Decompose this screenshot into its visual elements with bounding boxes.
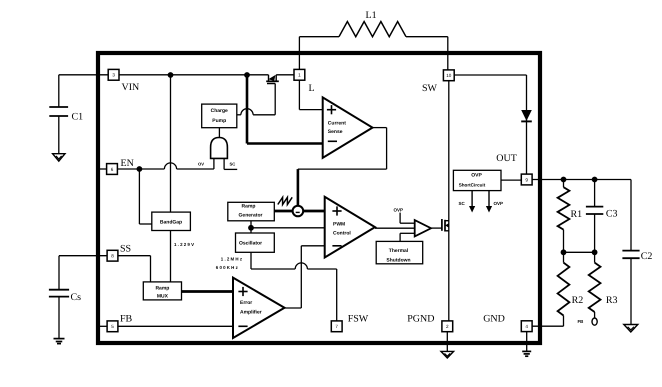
svg-text:Thermal: Thermal	[389, 248, 409, 254]
svg-text:OVP: OVP	[394, 208, 404, 213]
svg-text:10: 10	[446, 73, 452, 78]
svg-text:1 . 2 M H z: 1 . 2 M H z	[221, 256, 243, 261]
svg-text:FB: FB	[578, 319, 584, 324]
svg-text:Current: Current	[328, 120, 346, 126]
svg-text:Error: Error	[240, 300, 252, 306]
svg-text:C2: C2	[641, 251, 653, 262]
svg-text:SC: SC	[459, 201, 466, 206]
svg-text:1 . 2 2 9 V: 1 . 2 2 9 V	[174, 242, 194, 247]
svg-text:R2: R2	[572, 295, 584, 306]
svg-text:GND: GND	[483, 314, 505, 325]
svg-text:Cs: Cs	[71, 292, 82, 303]
svg-text:MUX: MUX	[157, 294, 169, 300]
svg-text:R3: R3	[606, 295, 618, 306]
svg-text:SC: SC	[230, 162, 236, 167]
svg-text:VIN: VIN	[122, 82, 140, 93]
svg-text:FSW: FSW	[348, 314, 369, 325]
svg-text:BandGap: BandGap	[160, 220, 182, 226]
svg-text:Amplifier: Amplifier	[240, 310, 262, 316]
svg-text:Ramp: Ramp	[155, 285, 169, 291]
svg-text:C1: C1	[72, 112, 84, 123]
svg-text:PWM: PWM	[333, 222, 345, 228]
svg-text:4: 4	[525, 324, 528, 329]
svg-text:OVP: OVP	[471, 172, 482, 178]
svg-text:Ramp: Ramp	[242, 204, 256, 210]
svg-text:8: 8	[111, 254, 114, 259]
svg-text:Pump: Pump	[212, 118, 226, 124]
svg-text:SS: SS	[120, 244, 131, 255]
svg-text:9: 9	[525, 177, 528, 182]
svg-text:ShortCircuit: ShortCircuit	[459, 183, 486, 188]
svg-text:L1: L1	[366, 10, 377, 21]
svg-text:Oscillator: Oscillator	[239, 240, 262, 246]
svg-text:5: 5	[111, 324, 114, 329]
svg-text:EN: EN	[121, 158, 134, 169]
svg-text:Control: Control	[333, 231, 351, 237]
svg-text:C3: C3	[606, 209, 618, 220]
svg-text:6: 6	[111, 167, 114, 172]
svg-text:OV: OV	[198, 162, 204, 167]
svg-text:2: 2	[446, 324, 449, 329]
svg-text:Shutdown: Shutdown	[386, 257, 410, 263]
svg-text:R1: R1	[571, 209, 583, 220]
svg-text:OUT: OUT	[496, 153, 517, 164]
svg-text:6 0 0 K H z: 6 0 0 K H z	[216, 265, 239, 270]
svg-text:PGND: PGND	[407, 314, 434, 325]
svg-text:7: 7	[335, 324, 338, 329]
svg-text:OVP: OVP	[494, 201, 504, 206]
svg-text:FB: FB	[120, 314, 133, 325]
svg-text:Generator: Generator	[239, 212, 263, 218]
svg-text:1: 1	[298, 73, 301, 78]
svg-text:Charge: Charge	[211, 108, 228, 114]
svg-text:3: 3	[112, 73, 115, 78]
svg-text:Sense: Sense	[328, 129, 343, 135]
svg-text:L: L	[309, 83, 315, 94]
svg-text:SW: SW	[422, 83, 438, 94]
